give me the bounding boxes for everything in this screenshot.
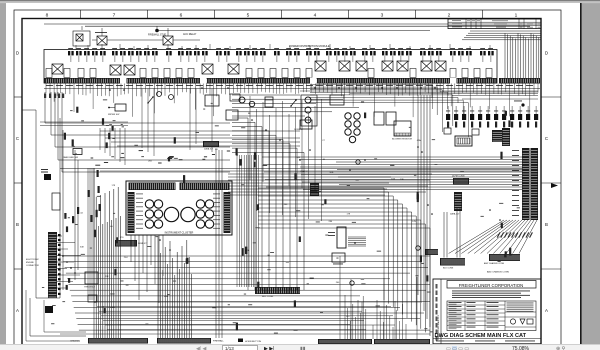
svg-text:ACC RELAY: ACC RELAY (183, 33, 197, 36)
viewer bottom toolbar (0, 344, 600, 350)
wire bundle bottom strip4 feeds (376, 300, 378, 339)
layout icons (446, 346, 469, 350)
fuse holder vertical (337, 227, 346, 248)
fuse F19 (236, 51, 242, 55)
connector cavity 4 (90, 69, 96, 78)
bulkhead connector J1 column B (531, 148, 539, 220)
svg-text:C: C (545, 136, 548, 141)
dlx comb box (455, 136, 472, 146)
wire cascade center (232, 118, 248, 290)
fuse F17 (216, 51, 222, 55)
wire fuse F9 lead (138, 56, 140, 62)
wire bundle bottom-left horizontals (62, 255, 430, 257)
terminal strip main (44, 78, 497, 84)
splice circle right (416, 246, 420, 250)
wire fuse F35 lead (392, 56, 394, 62)
wire fuse F39 lead (430, 56, 432, 62)
wire long cross horizontals (60, 168, 522, 170)
fuse F44 (480, 51, 486, 55)
title block table (447, 301, 536, 331)
wire fuse F10 lead (146, 56, 148, 62)
fuse F33 (370, 51, 376, 55)
lamp DOME LT B (305, 107, 311, 113)
cid connector boxes (41, 169, 48, 170)
wire right upper horizontals (440, 91, 538, 93)
bus under strip (44, 88, 540, 90)
svg-text:POWER DISTRIBUTION MODULE: POWER DISTRIBUTION MODULE (289, 44, 330, 48)
connector CN4 (470, 114, 474, 120)
wire fuse F19 lead (238, 56, 240, 62)
wire top bus A (44, 23, 541, 25)
fuse F45 (488, 51, 494, 55)
fuse F16 (202, 51, 208, 55)
wire fuse F22 lead (262, 56, 264, 62)
instrument cluster top comb A (129, 183, 176, 191)
zoom percent (512, 346, 529, 350)
wire fuse F14 lead (188, 56, 190, 62)
wire fuse F13 lead (180, 56, 182, 62)
fuse F30 (342, 51, 348, 55)
wire fuse F23 lead (276, 56, 278, 62)
wire labels left verticals (44, 94, 46, 99)
fuse F39 (428, 51, 434, 55)
page number box (222, 345, 258, 350)
svg-text:7: 7 (113, 12, 116, 18)
terminal strip right section (499, 78, 540, 84)
svg-text:C: C (16, 136, 19, 141)
chassis connector pair (425, 249, 438, 255)
connector cavity 13 (282, 69, 288, 78)
wire fuse F21 lead (254, 56, 256, 62)
engine connector upper box (52, 193, 60, 210)
wiper wire (109, 107, 115, 109)
wire bundle bottom strip3 feeds (344, 295, 346, 339)
wire fuse F16 lead (204, 56, 206, 62)
relay K9 (382, 61, 393, 71)
connector cavity 15 (306, 69, 312, 78)
wire stepped bus top right (470, 30, 541, 32)
svg-text:42A: 42A (245, 249, 249, 252)
bottom strip chassis 3 (318, 339, 372, 344)
title block application row (433, 338, 541, 340)
wire mid-left bus (100, 130, 300, 132)
wire fuse F24 lead (288, 56, 290, 62)
zone row ticks left (14, 96, 22, 98)
fuse F7 (120, 51, 126, 55)
wire fuse F44 lead (482, 56, 484, 62)
terminal strip gaps (120, 78, 127, 85)
horn button (238, 339, 243, 343)
connector CN6 (486, 114, 490, 120)
svg-text:FIREWALL: FIREWALL (213, 340, 225, 343)
module box M1 (330, 95, 344, 105)
pwr jst box (332, 253, 345, 262)
connector cavity 18 (450, 69, 456, 78)
wire engine connector links (57, 235, 62, 237)
svg-text:D: D (545, 51, 548, 56)
connector CN10 (518, 114, 522, 120)
lamp DOME LT C (305, 117, 311, 123)
fuse F6 (112, 51, 118, 55)
svg-text:36B: 36B (329, 172, 333, 174)
wire bundle cluster drops (130, 235, 132, 262)
svg-text:FREIGHTLINER CORPORATION: FREIGHTLINER CORPORATION (459, 283, 523, 288)
relay K8 (356, 61, 367, 71)
wire fuse F34 lead (384, 56, 386, 62)
wire label row mid-left (167, 158, 172, 159)
blk connector right (440, 258, 465, 266)
connector cavity 19 (462, 69, 468, 78)
grd stud junction (521, 103, 524, 106)
fuse F14 (186, 51, 192, 55)
wire fuse F5 lead (102, 56, 104, 62)
wire bundle B3 verticals to firewall strip (157, 236, 159, 338)
wire fuse F17 lead (218, 56, 220, 62)
label PWR JST (333, 263, 343, 266)
title block outline (433, 279, 541, 344)
fuse F8 (128, 51, 134, 55)
wire fuse F29 lead (336, 56, 338, 62)
revision table (448, 19, 541, 29)
wire bundle to bulkhead connector (262, 156, 522, 158)
wire curtain mid-left (141, 89, 143, 149)
wire vertical labels global (254, 153, 256, 160)
fuse F41 (450, 51, 456, 55)
ground stud mid (356, 160, 360, 164)
wire left verticals (45, 92, 230, 123)
firewall stud (155, 29, 159, 33)
fuse F21 (252, 51, 258, 55)
zone column ticks top (80, 10, 82, 19)
switch lever symbol (291, 100, 296, 106)
svg-text:ELECTRONIC: ELECTRONIC (26, 259, 39, 261)
connector CN11 (526, 114, 530, 120)
connector cavity 10 (246, 69, 252, 78)
svg-text:DATA JCT: DATA JCT (204, 148, 214, 151)
wire bottom-left corner runs (30, 298, 86, 336)
wire stud feed (157, 30, 430, 32)
bulb cluster (345, 113, 351, 119)
fuse F38 (420, 51, 426, 55)
connector cavity 7 (164, 69, 170, 78)
svg-text:A: A (545, 308, 548, 313)
svg-text:BLK CONN: BLK CONN (443, 268, 454, 270)
wire cascade top-right (310, 85, 432, 99)
relay K3 (124, 65, 135, 75)
wire fuse F18 lead (226, 56, 228, 62)
wire fuse F40 lead (438, 56, 440, 62)
fuse F34 (382, 51, 388, 55)
fuse labels row (68, 47, 73, 50)
svg-text:42A: 42A (164, 295, 168, 298)
connector cavity 1 (46, 69, 52, 78)
slfm connector comb (310, 183, 319, 196)
wire bus vertical bundle right (504, 33, 506, 78)
wire fuse F11 lead (154, 56, 156, 62)
resistor block pair (374, 112, 384, 125)
dimmer switch (226, 110, 238, 120)
wire fuse F38 lead (422, 56, 424, 62)
fuse F18 (224, 51, 230, 55)
fuse F35 (390, 51, 396, 55)
wire fuse F1 lead (70, 56, 72, 62)
connector cavity 21 (486, 69, 492, 78)
svg-text:CONNECTOR: CONNECTOR (26, 265, 39, 267)
connector cavity 16 (368, 69, 374, 78)
svg-text:42A: 42A (417, 139, 421, 142)
fuse F10 (144, 51, 150, 55)
relay K2 (110, 65, 121, 75)
power distribution module box (44, 50, 497, 84)
wire right fan diagonals (519, 220, 537, 254)
fuse F9 (136, 51, 142, 55)
wire fuse F41 lead (452, 56, 454, 62)
wire fuse F8 lead (130, 56, 132, 62)
wire fuse F7 lead (122, 56, 124, 62)
wire drops from terminal strip (45, 84, 47, 94)
data junction vertical comb (454, 192, 462, 211)
svg-text:FIREWALL STUD: FIREWALL STUD (148, 34, 167, 37)
connector CN2 (454, 114, 458, 120)
connector cavity 20 (474, 69, 480, 78)
wire bundle bottom horizontals (95, 301, 420, 303)
label fuse holder (328, 231, 335, 234)
wire fuse F26 lead (308, 56, 310, 62)
fuse F24 (286, 51, 292, 55)
svg-text:23F: 23F (400, 179, 404, 181)
svg-text:8: 8 (46, 12, 49, 18)
instrument cluster right pins (224, 192, 231, 233)
gauge circles left (145, 200, 153, 208)
fuse F4 (92, 51, 98, 55)
flasher lamp A (239, 97, 245, 103)
wire drops to module top (75, 45, 77, 50)
instrument cluster left pins (128, 192, 135, 233)
svg-text:23F: 23F (105, 276, 109, 278)
fuse F40 (436, 51, 442, 55)
connector CN9 (510, 114, 514, 120)
throttle box (85, 272, 98, 284)
wire fuse F15 lead (196, 56, 198, 62)
small black box lower left (45, 306, 53, 313)
page right edge (580, 3, 582, 344)
label ACC RELAY A (95, 31, 107, 34)
wire wiper horizontals (40, 121, 128, 123)
wire fuse F3 lead (86, 56, 88, 62)
wire left margin long (36, 110, 60, 298)
viewer top edge (0, 0, 600, 1)
fuse F13 (178, 51, 184, 55)
wire fuse F33 lead (372, 56, 374, 62)
svg-text:3: 3 (381, 12, 384, 18)
dark comb right (492, 130, 503, 142)
speedometer gauge (164, 207, 178, 221)
bus under strip right C (350, 93, 538, 95)
relay K12 (435, 61, 446, 71)
wire fuse F37 lead (408, 56, 410, 62)
wire fuse F28 lead (328, 56, 330, 62)
connector cavity 6 (152, 69, 158, 78)
zone row ticks right (541, 96, 561, 98)
fuse holder ribbon (348, 236, 366, 238)
zoom icons (556, 346, 565, 350)
data junction comb upper (203, 141, 219, 147)
small box right B (472, 129, 479, 135)
dlx conn comb (502, 128, 510, 146)
revision table text (452, 19, 461, 22)
title block vertical text strip (436, 284, 438, 289)
fuse F36 (398, 51, 404, 55)
flasher cylinder (265, 97, 273, 107)
fuse F32 (362, 51, 368, 55)
wire fuse F36 lead (400, 56, 402, 62)
connector CN8 (502, 114, 506, 120)
connector cavity 12 (270, 69, 276, 78)
fuse F43 (466, 51, 472, 55)
wire VBAT bus (228, 173, 432, 175)
connector CN12 (534, 114, 538, 120)
fuse F28 (326, 51, 332, 55)
lamp left A (157, 92, 162, 97)
svg-text:A: A (16, 308, 19, 313)
nav prev buttons (196, 346, 206, 350)
headlamp switch (205, 95, 219, 106)
wire nested corners left-mid (99, 128, 101, 150)
svg-text:ENGINE: ENGINE (26, 262, 34, 264)
cluster pin labels left (136, 193, 143, 196)
title block side strip (440, 279, 442, 344)
svg-text:D: D (16, 51, 19, 56)
switch lever left (148, 97, 153, 103)
wire fuse F30 lead (344, 56, 346, 62)
bus under strip right B (300, 90, 538, 92)
wire pairs to blk conn (443, 212, 445, 258)
svg-text:5: 5 (247, 12, 250, 18)
wire labels scattered (195, 131, 199, 134)
wire fuse F25 lead (296, 56, 298, 62)
svg-text:BLK CONN: BLK CONN (262, 296, 274, 298)
fuse F12 (166, 51, 172, 55)
connector cavity 2 (64, 69, 70, 78)
wire junction dots (62, 255, 64, 257)
bottom strip chassis 1 (88, 338, 148, 344)
connector left LE (88, 295, 97, 302)
fuse F11 (152, 51, 158, 55)
cluster pin labels right (213, 193, 220, 196)
electronic engine connector (48, 232, 57, 298)
relay K7 (339, 61, 350, 71)
blk connector center (255, 287, 300, 294)
wiper switch (115, 104, 126, 111)
instrument cluster top comb B (180, 183, 230, 191)
instrument cluster box (126, 181, 232, 235)
wire fuse F45 lead (490, 56, 492, 62)
fuse F22 (260, 51, 266, 55)
svg-text:HORN BUTTON: HORN BUTTON (245, 341, 261, 343)
bottom strip chassis 4 (374, 339, 430, 344)
relay K1 (52, 64, 63, 74)
splice S1 (350, 281, 354, 285)
wire bundle right-of-cluster verticals (236, 155, 238, 287)
view icons (300, 346, 306, 350)
fuse F26 (306, 51, 312, 55)
wire fuse F42 lead (460, 56, 462, 62)
connector CN5 (478, 114, 482, 120)
wire fuse F31 lead (352, 56, 354, 62)
title block company header (447, 281, 536, 289)
amp chassis connector (489, 254, 520, 261)
fuse F27 (314, 51, 320, 55)
flasher lamp B (249, 101, 254, 106)
fuse F15 (194, 51, 200, 55)
label GRD STUD (514, 100, 522, 103)
wire bundle left verticals long (59, 118, 61, 298)
wire cascade center-right staircase (258, 188, 384, 300)
connector CN7 (494, 114, 498, 120)
wire vertical labels beside cluster (97, 170, 99, 177)
title block symbols (510, 319, 515, 324)
wire center verticals (249, 96, 251, 180)
wire fuse F32 lead (364, 56, 366, 62)
fuse F1 (68, 51, 74, 55)
wire verticals left of cluster pair (215, 150, 217, 338)
svg-text:B: B (545, 222, 548, 227)
fuse F23 (274, 51, 280, 55)
svg-text:INSTRUMENT CLUSTER: INSTRUMENT CLUSTER (165, 231, 194, 234)
title block table text (449, 301, 462, 304)
svg-text:6: 6 (180, 12, 183, 18)
wire fuse F27 lead (316, 56, 318, 62)
wire bundle center-right long verticals (417, 95, 419, 295)
connector cavity 11 (258, 69, 264, 78)
wire fuse F2 lead (78, 56, 80, 62)
fuse F37 (406, 51, 412, 55)
dlfm connector (453, 178, 469, 185)
blower resistor (394, 121, 411, 136)
fuse F25 (294, 51, 300, 55)
wire fuse F4 lead (94, 56, 96, 62)
wire upper-mid horizontals (232, 94, 300, 96)
svg-text:VBAT-C: VBAT-C (300, 170, 308, 173)
relay K6 (315, 61, 326, 71)
park brake switch (73, 149, 82, 155)
connector cavity 14 (294, 69, 300, 78)
labels connector row D (446, 110, 450, 113)
relay K5 (228, 64, 239, 74)
relay box GRN with inner relay (73, 31, 90, 46)
svg-text:2: 2 (448, 12, 451, 18)
relay K10 (397, 61, 408, 71)
svg-text:1: 1 (515, 12, 518, 18)
fuse F42 (458, 51, 464, 55)
fuse F20 (244, 51, 250, 55)
tachometer gauge (181, 207, 195, 221)
title block notice text (452, 290, 530, 293)
fuse F5 (100, 51, 106, 55)
fuse F2 (76, 51, 82, 55)
dipa junction comb (115, 240, 137, 247)
connector cavity 9 (188, 69, 194, 78)
wire acc links (92, 39, 97, 41)
wire bundle beside cluster (87, 168, 89, 300)
connector CN1 (446, 114, 450, 120)
svg-text:AMP CHASSIS CONN: AMP CHASSIS CONN (484, 262, 505, 265)
lamp DOME LT A (305, 97, 311, 103)
nav next buttons (264, 346, 274, 350)
svg-text:DATA JCT: DATA JCT (450, 213, 460, 216)
wire fuse F20 lead (246, 56, 248, 62)
bulkhead connector labels (512, 149, 519, 152)
